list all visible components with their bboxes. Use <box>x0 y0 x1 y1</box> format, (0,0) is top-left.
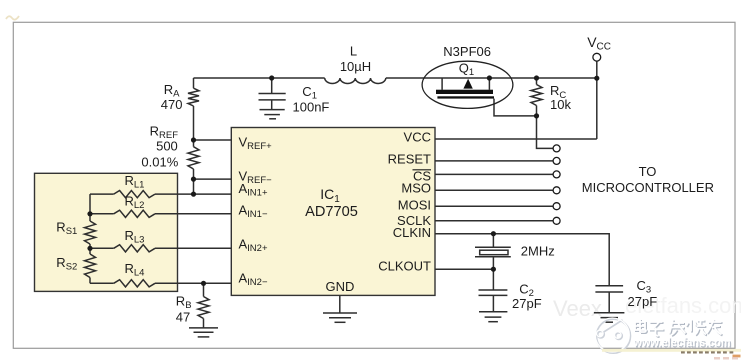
svg-text:MSO: MSO <box>401 181 431 196</box>
svg-text:www.elecfans.com: www.elecfans.com <box>633 335 731 349</box>
svg-text:100nF: 100nF <box>293 99 330 114</box>
svg-text:10µH: 10µH <box>340 59 371 74</box>
svg-text:MOSI: MOSI <box>398 197 431 212</box>
svg-text:500: 500 <box>156 139 178 154</box>
svg-text:VCC: VCC <box>404 130 431 145</box>
svg-text:CLKIN: CLKIN <box>393 225 431 240</box>
svg-text:10k: 10k <box>550 97 571 112</box>
svg-text:TO: TO <box>639 164 657 179</box>
svg-text:27pF: 27pF <box>512 296 542 311</box>
svg-text:470: 470 <box>161 97 183 112</box>
svg-text:GND: GND <box>326 279 355 294</box>
svg-text:47: 47 <box>176 309 190 324</box>
svg-text:0.01%: 0.01% <box>141 155 178 170</box>
svg-text:MICROCONTROLLER: MICROCONTROLLER <box>582 180 714 195</box>
svg-text:L: L <box>350 43 357 58</box>
svg-text:AD7705: AD7705 <box>305 204 358 220</box>
svg-text:CLKOUT: CLKOUT <box>378 259 431 274</box>
svg-text:Veex: Veex <box>553 296 602 321</box>
svg-text:N3PF06: N3PF06 <box>443 44 491 59</box>
svg-text:RESET: RESET <box>388 152 431 167</box>
svg-text:2MHz: 2MHz <box>521 244 555 259</box>
svg-text:27pF: 27pF <box>628 294 658 309</box>
